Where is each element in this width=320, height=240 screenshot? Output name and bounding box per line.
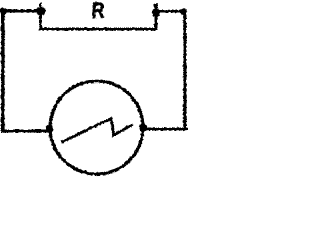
svg-text:R: R [91,0,104,22]
